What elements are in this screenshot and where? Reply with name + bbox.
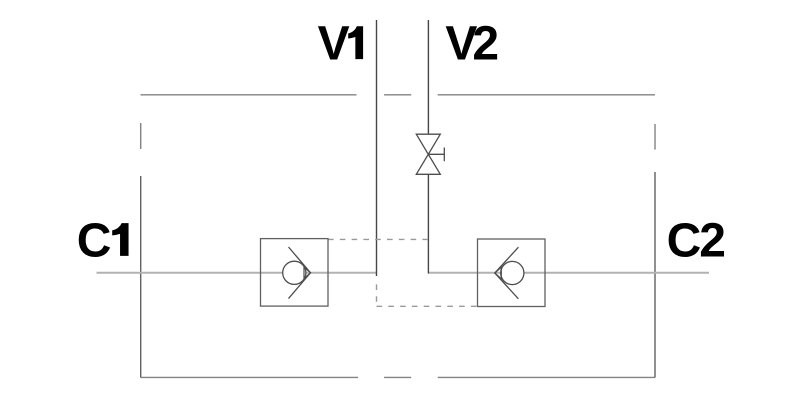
svg-text:C: C [77, 215, 112, 268]
check valve CV2 seat chevron [495, 247, 519, 299]
check valve CV1 seat apex triangle [304, 267, 311, 279]
pilot line dashed vertical from V1 junction [376, 278, 378, 306]
node C1 label [77, 215, 129, 268]
enclosure dashed boundary right edge [654, 124, 656, 378]
pilot line dashed: right valve pilot from V1 [377, 305, 478, 307]
check valve CV1 ball [283, 261, 306, 284]
wire V1 vertical line [376, 20, 378, 276]
svg-text:V: V [318, 17, 350, 70]
check valve CV2 seat apex triangle [495, 267, 502, 279]
pilot line dashed: left valve pilot from V2 [328, 238, 428, 240]
check valve CV2 box [478, 239, 546, 307]
wire V2 vertical line below needle valve [427, 175, 429, 274]
check valve CV1 seat chevron [289, 247, 311, 299]
needle valve on V2 line [416, 134, 444, 174]
enclosure dashed boundary bottom edge [141, 376, 655, 378]
node V1 label [318, 17, 363, 70]
check valve CV1 box [261, 239, 329, 307]
wire V2 line to right valve inlet [428, 272, 501, 274]
wire left valve outlet to V1 line [306, 272, 377, 274]
check valve CV2 ball [501, 261, 524, 284]
svg-text:C2: C2 [667, 215, 725, 268]
svg-text:V2: V2 [445, 17, 497, 70]
enclosure dashed boundary top edge [141, 94, 656, 96]
wire V2 vertical line above needle valve [427, 20, 429, 134]
wire C1 port horizontal line [97, 272, 284, 274]
enclosure dashed boundary left edge [140, 123, 142, 378]
wire C2 port horizontal line [524, 272, 709, 274]
